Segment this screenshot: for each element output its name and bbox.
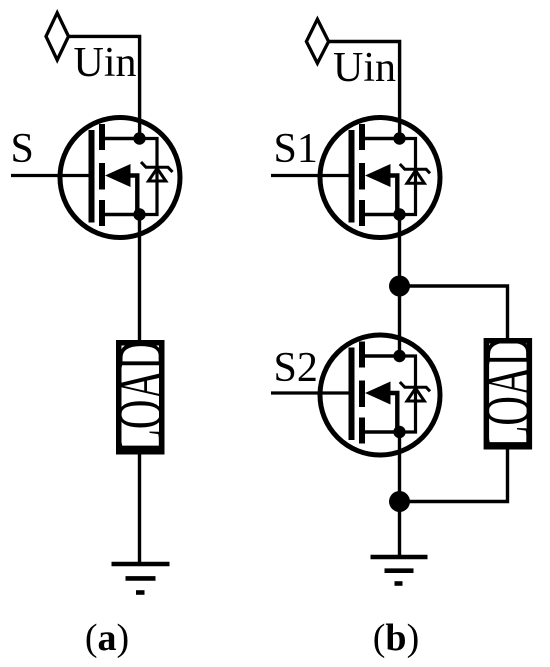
MOSFET S2 body circle: [320, 335, 440, 455]
wire: Uin supply to drain of S1 (b): [328, 42, 400, 141]
wire: source S2 to node B: [398, 432, 401, 502]
wire: node B to ground (b): [398, 502, 401, 558]
wire: source lead (a): [102, 213, 140, 216]
wire: source lead S1: [362, 213, 400, 216]
wire: body-to-source link S2: [389, 393, 397, 432]
wire: node A to drain of S2: [398, 286, 401, 358]
body arrow of S1: [365, 164, 391, 187]
wire: source of S to LOAD (a): [138, 215, 141, 343]
body diode D (a) triangle: [149, 168, 166, 181]
junction dot drain (a): [133, 132, 145, 144]
svg-text:Uin: Uin: [74, 40, 137, 86]
MOSFET S2 channel segment body: [359, 381, 365, 408]
svg-text:S1: S1: [274, 126, 318, 172]
MOSFET S1 channel segment body: [359, 163, 365, 190]
load resistor box (a): [119, 343, 162, 452]
MOSFET S channel segment body (a): [99, 163, 105, 190]
svg-text:(a): (a): [85, 617, 129, 659]
body diode D2 triangle: [407, 388, 424, 401]
body diode D1 triangle: [407, 170, 424, 183]
wire: source S1 to node A: [398, 215, 401, 287]
MOSFET S channel segment source (a): [99, 200, 105, 226]
svg-text:S2: S2: [274, 345, 318, 391]
wire: drain lead (a): [102, 137, 140, 140]
wire: gate lead S (a): [11, 174, 91, 177]
junction dot source S2: [393, 426, 405, 438]
wire: body diode branch S1: [400, 139, 416, 215]
wire: source lead S2: [362, 430, 400, 433]
wire: body diode branch (a): [140, 139, 158, 215]
wire: gate lead S2: [271, 391, 351, 394]
junction dot drain S2: [393, 350, 405, 362]
body diode D (a) zener cathode: [141, 162, 173, 172]
wire: drain lead S2: [362, 354, 400, 357]
body diode D2 zener cathode: [400, 382, 430, 391]
wire: LOAD to ground (a): [138, 452, 141, 564]
MOSFET S1 channel segment drain: [359, 124, 365, 150]
wire: node A to LOAD top (b): [400, 286, 508, 340]
wire: drain lead S1: [362, 137, 400, 140]
MOSFET S1 channel segment source: [359, 200, 365, 226]
MOSFET S2 channel segment drain: [359, 342, 365, 368]
wire: node B to LOAD bottom (b): [400, 447, 508, 502]
MOSFET S1 body circle: [320, 118, 440, 238]
wire: body-to-source link S1: [389, 176, 397, 215]
MOSFET S1 gate electrode bar: [349, 130, 355, 223]
svg-text:Uin: Uin: [333, 45, 396, 91]
body diode D1 zener cathode: [400, 164, 430, 173]
input connector diamond (b): [306, 19, 328, 63]
junction dot source (a): [133, 208, 145, 220]
svg-text:LOAD: LOAD: [105, 340, 176, 454]
MOSFET S gate electrode bar (a): [89, 130, 95, 223]
input connector diamond (a): [46, 13, 69, 60]
wire: body-to-source link (a): [129, 176, 137, 215]
node A junction dot (S1 source / S2 drain / LOAD top): [389, 276, 410, 297]
wire: gate lead S1: [271, 174, 351, 177]
ground symbol (b): [371, 557, 428, 584]
wire: body diode branch S2: [400, 356, 416, 432]
body arrow of S (a): [105, 164, 131, 187]
svg-text:LOAD: LOAD: [472, 337, 543, 451]
ground symbol (a): [112, 564, 170, 593]
MOSFET S2 channel segment source: [359, 418, 365, 444]
load resistor box (b): [486, 341, 529, 447]
node B junction dot (S2 source / LOAD bottom / ground): [389, 491, 410, 512]
svg-text:S: S: [11, 126, 34, 172]
svg-text:(b): (b): [373, 617, 419, 659]
body arrow of S2: [365, 382, 391, 405]
MOSFET S channel segment drain (a): [99, 124, 105, 150]
wire: Uin supply to drain of S (a): [68, 36, 140, 140]
junction dot source S1: [393, 208, 405, 220]
junction dot drain S1: [393, 132, 405, 144]
MOSFET S body circle (a): [60, 118, 180, 238]
MOSFET S2 gate electrode bar: [349, 348, 355, 441]
